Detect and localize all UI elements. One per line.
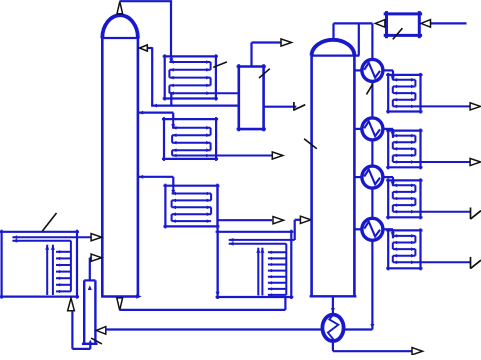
arrow T4 outlet into K1 xyxy=(91,234,102,241)
pipe: K2 stub to cooler X1 xyxy=(354,69,362,71)
pipe: cooler X3 to exchanger xyxy=(383,177,394,186)
heat exchanger T1 xyxy=(163,54,240,100)
heat exchanger T7 xyxy=(386,129,470,170)
reboiler X5 xyxy=(322,315,343,341)
heat exchanger T6 xyxy=(386,73,470,114)
pipe: reboiler right leg xyxy=(344,328,373,330)
vessel V1 xyxy=(82,280,98,343)
arrow into E2 xyxy=(421,20,431,28)
pipe: T5 outlet riser to K2 feed xyxy=(295,220,301,240)
heat exchanger T2 xyxy=(162,117,272,161)
stream slash on E2 xyxy=(393,28,403,39)
stream slash on E1 xyxy=(259,69,270,78)
reflux arrow into K1 xyxy=(140,45,148,51)
cooler X4 xyxy=(362,218,383,240)
pipe: E1 vent xyxy=(252,43,282,67)
pipe: T3 to T5 downcomer xyxy=(216,186,220,297)
stream slash on condenser train xyxy=(366,84,372,95)
pipe: K2 bottoms to reboiler X5 xyxy=(331,296,335,314)
pipe: condenser train xyxy=(370,82,374,329)
arrow E1 vent xyxy=(281,39,292,46)
stream slash on T1 outlet xyxy=(213,62,227,68)
cooler X2 xyxy=(362,118,383,140)
arrow V1 overhead into K1 xyxy=(91,254,102,261)
pipe: cooler X2 to exchanger xyxy=(383,129,394,138)
pipe: K1 bottoms line xyxy=(120,297,286,310)
pipe: K2 stub to cooler X3 xyxy=(354,176,362,178)
pipe: cooler X1 to exchanger xyxy=(383,70,394,79)
pipe: T1 coil drop xyxy=(170,92,172,105)
stream slash on T4 xyxy=(42,213,56,231)
pipe: T3 outlet line xyxy=(218,219,273,221)
heat exchanger T8 xyxy=(386,178,470,219)
stream tick from T8 xyxy=(471,208,481,220)
pipe: cooler X4 to exchanger xyxy=(383,229,394,238)
heat exchanger T3 xyxy=(163,184,219,229)
bottoms product arrow xyxy=(412,348,423,355)
product arrow from T7 xyxy=(470,158,481,165)
arrow into V1 from reboiler line xyxy=(96,327,106,335)
heat exchanger T9 xyxy=(386,228,470,270)
drum E1 xyxy=(237,64,266,131)
stream slash on K2 feed zone xyxy=(304,139,317,149)
cooler X3 xyxy=(362,166,383,188)
pipe: reboiler bottoms out xyxy=(333,341,412,351)
pipe: inlet to E2 xyxy=(431,22,467,24)
column K2 shell xyxy=(310,40,360,296)
stream tick from T9 xyxy=(471,257,481,269)
pipe: K2 stub to cooler X2 xyxy=(354,128,362,130)
heat exchanger T5 xyxy=(216,230,295,299)
pipe: K2 stub to cooler X4 xyxy=(354,228,362,230)
pipe: K2 overhead xyxy=(334,23,373,58)
pipe: V1 overhead to K1 xyxy=(88,258,92,290)
stream tick from E2 outlet xyxy=(264,102,306,111)
pipe: K1 overhead to condenser T1 xyxy=(120,1,173,56)
pipe: K1 bottoms draw to T3 xyxy=(138,175,173,186)
drum E2 xyxy=(384,11,422,38)
arrow K1 bottoms outlet xyxy=(117,298,123,310)
product arrow from T2 xyxy=(272,152,283,159)
arrow E2 to overhead junction xyxy=(375,20,385,28)
pipe: reboiler return line xyxy=(105,328,322,330)
feed arrow into K2 xyxy=(300,216,311,223)
cooler X1 xyxy=(362,59,383,81)
pipe: K1 sidedraw to T2 xyxy=(138,111,173,119)
pipe: V1 bottom to T4 xyxy=(72,311,92,349)
pipe: reflux line to K1 xyxy=(148,47,240,107)
flow arrow on T3 outlet xyxy=(273,217,284,224)
heat exchanger T4 xyxy=(0,230,92,299)
arrow into T4 bottom xyxy=(68,298,75,311)
column K1 top vent arrow xyxy=(117,2,123,14)
stream slash on V1 bottom xyxy=(91,338,102,344)
product arrow from T6 xyxy=(470,103,481,110)
column K1 shell xyxy=(101,15,142,298)
